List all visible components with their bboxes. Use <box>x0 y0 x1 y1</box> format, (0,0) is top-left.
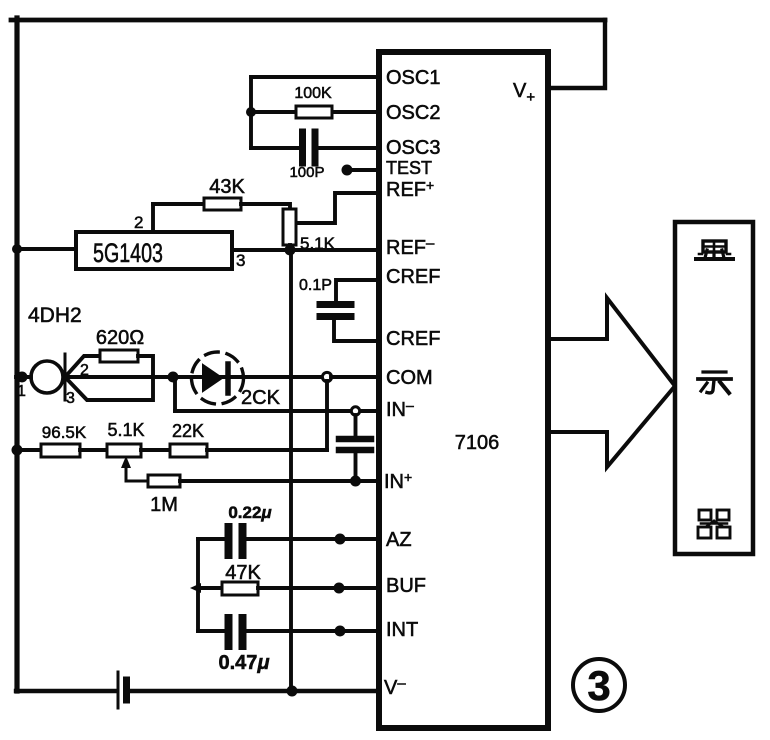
label pin 1 transducer <box>17 383 26 400</box>
wire OSC3 right <box>319 146 378 150</box>
label 0.1P <box>299 277 332 294</box>
pin label REF- <box>386 235 435 259</box>
wire V+ drop from top rail <box>549 20 605 88</box>
box 5G1403 <box>76 232 232 269</box>
junction pot bottom REF- <box>285 245 296 256</box>
wire OSC1 <box>251 75 378 79</box>
svg-text:0.47μ: 0.47μ <box>219 652 270 674</box>
label 5.1K vertical pot <box>300 234 336 253</box>
wire 43K right to pot top <box>241 204 290 209</box>
junction OSC2 bracket <box>246 107 256 117</box>
wire COM ring to IC <box>331 375 378 379</box>
wire REF+ to pot wiper <box>296 193 378 223</box>
pin label INT <box>386 619 418 641</box>
glyph shi (display char 2) <box>698 372 731 393</box>
diode 2CK cathode bar <box>225 364 231 393</box>
wire transducer pin2 diagonal <box>65 356 100 377</box>
wire CREF bracket bottom <box>334 320 378 341</box>
label 5G1403 <box>93 238 163 268</box>
wire IN+ line <box>180 479 378 483</box>
wire pot to 22K <box>141 448 170 452</box>
wire pin3 to REF- <box>233 248 378 252</box>
wire frame to 96.5K <box>16 448 41 452</box>
pot wiper arrow stem <box>126 464 148 481</box>
wire long vertical riser <box>289 250 293 691</box>
wire cap stub lower <box>354 453 358 481</box>
svg-text:OSC2: OSC2 <box>386 102 440 124</box>
wire 96.5K to pot <box>80 448 107 452</box>
wire bottom rail right of battery <box>131 689 378 693</box>
pin label CREF lower <box>386 328 440 350</box>
svg-text:INT: INT <box>386 619 418 641</box>
label 22K <box>172 421 204 441</box>
svg-text:AZ: AZ <box>386 529 412 551</box>
label 47K <box>225 562 261 584</box>
capacitor 0.1P <box>320 305 351 317</box>
wire 43K left from pin2 <box>153 202 204 206</box>
svg-text:100P: 100P <box>289 164 324 181</box>
node COM ring <box>322 372 331 381</box>
pot wiper arrowhead <box>121 456 131 468</box>
wire 620 loop right <box>65 356 153 400</box>
arrow to display <box>549 298 675 467</box>
wire AZ-BUF-INT left bracket <box>196 539 200 631</box>
svg-text:22K: 22K <box>172 421 204 441</box>
svg-text:3: 3 <box>236 251 245 270</box>
op-amp U1 7106 IC body <box>379 52 548 728</box>
diode 2CK dashed circle <box>192 352 244 404</box>
wire AZ right <box>247 537 378 541</box>
pin label IN- <box>386 397 414 421</box>
junction frame REF- <box>12 244 22 254</box>
battery long plate <box>117 672 120 708</box>
svg-text:4DH2: 4DH2 <box>28 304 82 327</box>
pin label CREF upper <box>386 266 440 288</box>
svg-text:100K: 100K <box>294 85 332 102</box>
wire TEST stub <box>349 168 378 172</box>
junction INT dot <box>335 626 346 637</box>
junction frame COM <box>17 372 28 383</box>
label 5.1K horizontal pot <box>107 420 144 440</box>
resistor 22K <box>170 444 207 457</box>
label 620ohm <box>96 327 144 349</box>
label 2CK <box>241 387 281 409</box>
svg-text:7106: 7106 <box>455 432 500 454</box>
svg-text:2: 2 <box>134 213 143 232</box>
glyph xian (display char 1) <box>696 241 733 259</box>
potentiometer 5.1K horizontal <box>107 444 141 457</box>
pin label IN+ <box>384 469 412 493</box>
label 96.5K <box>42 423 87 442</box>
junction riser bottom <box>287 686 298 697</box>
wire bottom rail left of battery <box>16 689 115 693</box>
pin label OSC2 <box>386 102 440 124</box>
wire AZ left <box>198 537 224 541</box>
wire top supply rail <box>11 18 605 23</box>
svg-text:5.1K: 5.1K <box>107 420 144 440</box>
arrowhead BUF left <box>190 583 201 593</box>
wire frame to transducer <box>16 375 31 379</box>
label 43K <box>209 176 245 198</box>
label pin 3 of 5G1403 <box>236 251 245 270</box>
svg-text:620Ω: 620Ω <box>96 327 144 349</box>
pin label AZ <box>386 529 412 551</box>
wire cap stub upper <box>354 415 358 436</box>
pin label OSC1 <box>386 67 440 89</box>
label 7106 <box>455 432 500 454</box>
label pin 2 of 5G1403 <box>134 213 143 232</box>
pin label V- <box>384 675 406 699</box>
label pin 2 transducer <box>80 362 89 379</box>
wire pin2 drop to 5G1403 <box>151 204 155 231</box>
pin label V+ <box>513 80 535 106</box>
wire INT right <box>247 629 378 633</box>
svg-text:2CK: 2CK <box>241 387 281 409</box>
wire OSC3 left <box>251 146 299 150</box>
resistor 43K <box>204 198 241 210</box>
junction frame lower row <box>12 445 23 456</box>
potentiometer 5.1K vertical <box>283 209 296 245</box>
resistor 96.5K <box>41 444 80 457</box>
wire frame to 5G1403 <box>16 247 75 251</box>
svg-text:47K: 47K <box>225 562 261 584</box>
label 100K <box>294 85 332 102</box>
wire OSC2 left <box>251 110 296 114</box>
transducer tick line <box>64 354 67 400</box>
svg-text:TEST: TEST <box>386 158 432 178</box>
resistor 620ohm <box>100 350 138 362</box>
pin label OSC3 <box>386 137 440 159</box>
svg-text:96.5K: 96.5K <box>42 423 87 442</box>
wire BUF right <box>258 586 378 590</box>
svg-text:0.1P: 0.1P <box>299 277 332 294</box>
svg-text:3: 3 <box>587 662 610 709</box>
capacitor 0.47u <box>229 618 243 646</box>
box display <box>675 222 753 554</box>
label 100P <box>289 164 324 181</box>
wire IN- drop <box>173 377 177 411</box>
pin label COM <box>386 367 433 389</box>
node IN- ring <box>351 407 359 415</box>
wire pot bottom <box>288 245 292 250</box>
wire 22K riser to COM ring <box>325 381 329 450</box>
label 1M <box>150 494 178 516</box>
label 4DH2 <box>28 304 82 327</box>
svg-text:0.22μ: 0.22μ <box>228 503 272 522</box>
diode 2CK triangle <box>203 365 222 391</box>
wire OSC bracket vertical <box>249 77 253 148</box>
svg-text:BUF: BUF <box>386 575 426 597</box>
wire CREF bracket top <box>336 280 378 301</box>
wire left frame rail <box>14 18 19 691</box>
wire IN- line <box>175 409 378 413</box>
resistor 100K <box>296 106 332 118</box>
label 0.22u <box>228 503 272 522</box>
svg-text:3: 3 <box>66 390 75 407</box>
wire COM main line <box>65 375 322 379</box>
svg-text:5G1403: 5G1403 <box>93 238 163 268</box>
node TEST dot <box>342 165 353 176</box>
svg-text:1M: 1M <box>150 494 178 516</box>
wire INT left <box>198 629 224 633</box>
junction AZ dot <box>335 534 346 545</box>
capacitor 100P <box>303 132 316 163</box>
battery short plate <box>123 680 130 700</box>
junction cap IN+ <box>350 476 361 487</box>
svg-text:COM: COM <box>386 367 433 389</box>
wire BUF left <box>198 586 222 590</box>
svg-text:43K: 43K <box>209 176 245 198</box>
resistor 1M <box>148 475 180 487</box>
label 3 <box>587 662 610 709</box>
capacitor IN filter <box>339 439 371 450</box>
circled figure number 3 <box>573 659 625 711</box>
junction BUF dot <box>334 583 345 594</box>
label 0.47u <box>219 652 270 674</box>
svg-text:1: 1 <box>17 383 26 400</box>
junction loop COM <box>168 372 179 383</box>
svg-text:OSC3: OSC3 <box>386 137 440 159</box>
pin label REF+ <box>386 177 434 201</box>
resistor 47K <box>222 582 258 595</box>
wire 22K to COM riser <box>207 448 327 452</box>
svg-text:OSC1: OSC1 <box>386 67 440 89</box>
label pin 3 transducer <box>66 390 75 407</box>
transducer 4DH2 circle <box>31 361 63 393</box>
svg-text:CREF: CREF <box>386 266 440 288</box>
pin label BUF <box>386 575 426 597</box>
svg-text:CREF: CREF <box>386 328 440 350</box>
wire OSC2 right <box>332 110 378 114</box>
capacitor 0.22u <box>229 527 243 555</box>
glyph qi (display char 3) <box>698 510 730 538</box>
pin label TEST <box>386 158 432 178</box>
